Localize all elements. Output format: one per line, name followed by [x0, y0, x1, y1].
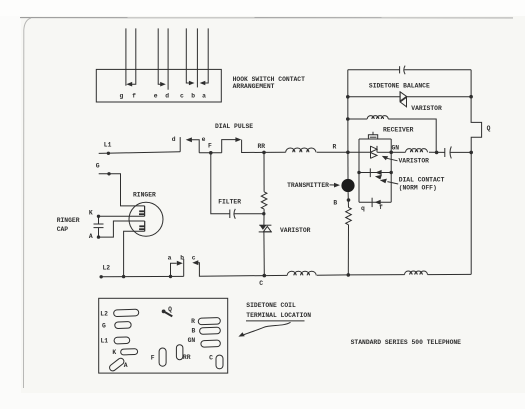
inductor coil D (line winding)	[287, 271, 316, 275]
ringer upper winding	[144, 206, 146, 216]
wire resistor to bottom rail	[347, 225, 349, 275]
svg-text:DIAL CONTACT: DIAL CONTACT	[399, 177, 445, 184]
node junction at sidetone drop	[435, 151, 439, 155]
svg-text:RINGER: RINGER	[133, 191, 156, 198]
svg-text:F: F	[208, 143, 212, 150]
wire stem c	[186, 28, 191, 83]
inductor coil A (R winding)	[286, 148, 316, 152]
terminal K pad	[121, 349, 138, 355]
terminal Q stud	[163, 311, 172, 316]
svg-text:K: K	[89, 209, 93, 216]
hook contact c arrow	[189, 81, 195, 86]
wire sidetone left rail	[347, 70, 349, 153]
hook contact c arm	[198, 263, 264, 277]
dial contact rung wire	[359, 172, 391, 174]
node a junction on L2	[169, 275, 172, 278]
terminal location box	[99, 298, 228, 373]
svg-text:RR: RR	[258, 143, 266, 150]
wire coil row left	[348, 118, 367, 120]
svg-text:FILTER: FILTER	[218, 199, 241, 206]
svg-text:TERMINAL LOCATION: TERMINAL LOCATION	[246, 312, 311, 319]
svg-text:d: d	[165, 93, 169, 100]
wire coil row right with drop	[388, 119, 436, 152]
node ladder rung3 left	[357, 171, 360, 174]
svg-text:F: F	[151, 354, 155, 361]
svg-text:c: c	[192, 254, 196, 261]
wire filter branch	[211, 153, 230, 214]
dial pulse moving contact e arrow	[191, 140, 199, 153]
varistor V2 (receiver shunt)	[370, 146, 372, 159]
wire coil to node B rail	[317, 274, 349, 276]
svg-text:ARRANGEMENT: ARRANGEMENT	[233, 83, 275, 90]
varistor V3 (line varistor)	[259, 224, 271, 226]
sidetone top wire with capacitor C1	[348, 69, 400, 71]
wire A to ringer	[99, 221, 145, 237]
transmitter annotation arrow	[330, 184, 335, 186]
svg-text:g: g	[120, 93, 124, 100]
wire varistor to node C	[263, 232, 265, 276]
wire L1 to dial contact d	[99, 152, 181, 154]
node R junction	[346, 151, 350, 155]
ringer lower winding	[144, 221, 146, 231]
dial contact arrow	[375, 170, 381, 175]
wire F to dial pulse contact 2	[211, 152, 222, 154]
wire coil to node R	[317, 151, 348, 153]
svg-text:RECEIVER: RECEIVER	[383, 127, 414, 134]
hook contact a arrow	[177, 261, 183, 266]
wire RR to coil	[264, 151, 286, 153]
svg-text:L2: L2	[100, 311, 108, 318]
terminal C pad	[216, 355, 223, 369]
node ladder rung3 right	[390, 171, 393, 174]
wire K to ringer	[99, 215, 145, 217]
bottom rung q-f wire	[359, 201, 391, 203]
hook contact a arrow	[200, 81, 206, 86]
terminal A pad	[108, 357, 125, 372]
wire bottom to coil E	[348, 274, 404, 276]
svg-text:A: A	[89, 233, 93, 240]
terminal RR pad	[176, 345, 183, 360]
node right rail junction	[469, 151, 473, 155]
scan border top edge	[20, 17, 513, 19]
wire varistor row right	[407, 96, 472, 98]
svg-text:f: f	[379, 204, 383, 211]
node sidetone right junction	[469, 95, 473, 99]
svg-text:RR: RR	[183, 354, 191, 361]
wire stem d	[167, 28, 169, 89]
svg-text:(NORM OFF): (NORM OFF)	[399, 184, 437, 191]
svg-text:C: C	[259, 280, 263, 287]
wire e to F	[199, 152, 211, 154]
svg-text:L2: L2	[103, 265, 111, 272]
contact f arrow	[375, 200, 381, 205]
svg-text:Q: Q	[487, 125, 491, 132]
svg-text:Q: Q	[168, 306, 172, 313]
node F junction	[209, 151, 213, 155]
svg-text:L1: L1	[104, 142, 112, 149]
wire G to ringer	[99, 174, 145, 206]
svg-text:b: b	[180, 254, 184, 261]
svg-text:R: R	[333, 143, 337, 150]
svg-text:B: B	[192, 328, 196, 335]
svg-text:GN: GN	[392, 144, 400, 151]
sidetone caption underline	[246, 320, 305, 322]
node C junction	[263, 274, 267, 278]
svg-text:G: G	[96, 162, 100, 169]
scan border left edge	[24, 18, 32, 388]
svg-text:GN: GN	[188, 337, 196, 344]
node ringer junction on L2	[122, 275, 125, 278]
svg-text:G: G	[102, 322, 106, 329]
svg-text:b: b	[191, 93, 195, 100]
node filter junction	[262, 212, 265, 215]
wire R to ladder	[348, 151, 371, 153]
svg-text:RINGER: RINGER	[57, 217, 80, 224]
annotation arrow dial contact	[387, 182, 398, 184]
wire ringer to L2 rail	[124, 231, 145, 276]
varistor V1 (sidetone balance)	[399, 92, 401, 102]
receiver ladder top rung	[359, 138, 391, 140]
node A	[97, 235, 100, 238]
wire varistor to GN	[377, 151, 391, 153]
wire stem f	[129, 28, 136, 84]
node L2 terminal	[100, 275, 103, 278]
svg-text:c: c	[180, 93, 184, 100]
contact q fixed bar	[371, 198, 373, 207]
node bottom junction	[347, 273, 351, 277]
inductor coil E (induction winding)	[405, 271, 428, 275]
wire stem e	[158, 28, 162, 84]
receiver ladder left rail	[358, 139, 360, 202]
hook switch contact box	[96, 69, 221, 102]
node sidetone left junction	[346, 95, 350, 99]
wire L2	[100, 275, 184, 277]
wire cap to right rail	[450, 151, 471, 153]
transmitter MIC	[341, 179, 354, 192]
inductor coil B (GN winding)	[406, 149, 428, 153]
wire C to coil	[264, 274, 287, 276]
wire R to transmitter	[347, 152, 349, 179]
svg-text:SIDETONE COIL: SIDETONE COIL	[246, 302, 296, 309]
terminal L1 pad	[114, 337, 130, 344]
wire transmitter to node B	[347, 192, 349, 207]
terminal G pad	[115, 322, 132, 329]
receiver U1 symbol	[368, 135, 377, 139]
svg-text:CAP: CAP	[57, 226, 69, 233]
dial pulse contact 2 fixed leg	[242, 140, 264, 153]
svg-text:f: f	[132, 93, 136, 100]
wire coil E to right rail	[428, 273, 472, 275]
dial pulse fixed contact d	[179, 137, 181, 152]
ringer coil enclosure	[129, 202, 163, 236]
receiver ladder right rail	[390, 139, 392, 202]
svg-text:TRANSMITTER: TRANSMITTER	[287, 182, 329, 189]
node B	[347, 198, 351, 202]
dial pulse contact 2 moving arm	[222, 140, 236, 153]
svg-text:C: C	[209, 355, 213, 362]
capacitor C4 (ringer cap)	[98, 216, 100, 224]
hook contact f arrow	[126, 82, 132, 87]
node RR junction	[262, 151, 266, 155]
node GN junction	[389, 151, 393, 155]
svg-text:a: a	[202, 93, 206, 100]
svg-text:e: e	[202, 136, 206, 143]
svg-text:e: e	[154, 93, 158, 100]
svg-text:VARISTOR: VARISTOR	[280, 227, 311, 234]
annotation arrow varistor V2	[387, 158, 398, 161]
terminal GN pad	[201, 340, 221, 347]
svg-text:L1: L1	[101, 338, 109, 345]
svg-text:DIAL PULSE: DIAL PULSE	[215, 123, 253, 130]
terminal F pad	[159, 348, 166, 366]
wire stem b	[196, 28, 198, 87]
wire stem g	[125, 28, 127, 85]
wire right rail with terminal Q tab	[471, 70, 482, 275]
wire varistor row left	[348, 96, 400, 98]
dial contact fixed bar	[369, 168, 371, 177]
svg-text:K: K	[112, 349, 116, 356]
wire resistor to filter junction	[263, 209, 265, 225]
svg-text:a: a	[168, 254, 172, 261]
hook contact a arm	[171, 263, 177, 276]
wire stem a	[204, 28, 208, 83]
terminal B pad	[199, 327, 220, 334]
svg-text:d: d	[172, 136, 176, 143]
inductor coil C (balance winding)	[367, 116, 388, 119]
svg-text:q: q	[361, 205, 365, 212]
terminal R pad	[198, 318, 220, 325]
dial pulse contact 2 arrow	[235, 137, 241, 142]
node G	[107, 172, 110, 175]
resistor R1 (transmitter branch)	[346, 207, 352, 224]
wire filter cap to RR branch	[235, 213, 264, 215]
svg-text:VARISTOR: VARISTOR	[399, 158, 430, 165]
resistor R2 (RR branch)	[263, 152, 265, 191]
wire GN to coil	[391, 151, 405, 153]
node K	[97, 215, 100, 218]
sidetone caption arrow	[244, 322, 291, 335]
svg-text:STANDARD SERIES 500 TELEPHONE: STANDARD SERIES 500 TELEPHONE	[351, 339, 462, 346]
svg-text:B: B	[333, 200, 337, 207]
svg-text:A: A	[124, 362, 128, 369]
svg-text:VARISTOR: VARISTOR	[411, 105, 442, 112]
capacitor C2 plates	[444, 148, 446, 157]
svg-text:R: R	[191, 318, 195, 325]
node L1	[107, 152, 110, 155]
hook contact c arrow	[192, 260, 198, 265]
hook contact b bar	[183, 259, 185, 277]
svg-text:SIDETONE BALANCE: SIDETONE BALANCE	[369, 83, 430, 90]
terminal L2 pad	[114, 309, 139, 316]
capacitor C3 (filter)	[229, 210, 231, 219]
node coil row left junction	[346, 117, 350, 121]
hook contact e arrow	[160, 82, 166, 87]
wire coil to cap	[429, 151, 445, 153]
